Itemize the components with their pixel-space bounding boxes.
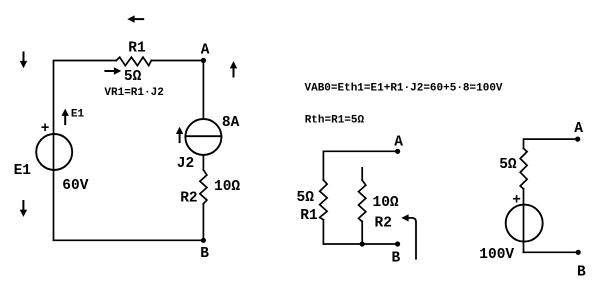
svg-text:E1: E1 bbox=[71, 108, 85, 120]
wire (R2 to node B) bbox=[202, 204, 204, 241]
svg-text:B: B bbox=[577, 265, 586, 281]
svg-text:5Ω: 5Ω bbox=[124, 69, 142, 85]
arrow up E1 emf bbox=[62, 109, 69, 125]
svg-text:A: A bbox=[201, 43, 210, 59]
bent arrow (pointing left at R2, circuit 2) bbox=[401, 214, 416, 259]
node A (circuit 2) bbox=[395, 149, 400, 154]
svg-text:R1: R1 bbox=[300, 208, 318, 224]
svg-text:E1: E1 bbox=[14, 163, 32, 179]
svg-text:100V: 100V bbox=[479, 247, 514, 263]
svg-text:A: A bbox=[574, 121, 583, 137]
svg-text:10Ω: 10Ω bbox=[373, 195, 399, 211]
node A (circuit 1) bbox=[201, 58, 206, 63]
svg-text:8A: 8A bbox=[222, 115, 240, 131]
svg-text:60V: 60V bbox=[62, 178, 88, 194]
svg-text:5Ω: 5Ω bbox=[297, 190, 315, 206]
wire (R1 to node A) bbox=[151, 60, 203, 62]
node B (circuit 1) bbox=[201, 238, 206, 243]
wire bottom (circuit 3) bbox=[524, 251, 579, 253]
resistor R2 (zigzag, circuit 2) bbox=[359, 180, 366, 221]
resistor R1 (zigzag, circuit 1) bbox=[116, 57, 151, 65]
svg-text:Rth=R1=5Ω: Rth=R1=5Ω bbox=[305, 115, 365, 127]
node B (circuit 3) bbox=[576, 250, 581, 255]
wire top (circuit 3: corner to node A) bbox=[524, 139, 578, 148]
svg-text:R2: R2 bbox=[180, 191, 197, 207]
arrow up (right of node A) bbox=[230, 61, 237, 77]
arrow right (current into R1) bbox=[104, 67, 121, 74]
arrow down (left side upper) bbox=[20, 51, 27, 68]
wire through source down to bottom (circuit 3) bbox=[523, 205, 525, 252]
current source J2 (circle with diameter line) bbox=[185, 119, 221, 155]
wire top (circuit 2: corner to node A) bbox=[323, 151, 397, 180]
wire (resistor to E, circuit 3) bbox=[523, 189, 525, 205]
resistor R2 (zigzag, circuit 1) bbox=[200, 170, 207, 204]
svg-text:+: + bbox=[512, 193, 521, 209]
resistor 5Ω (zigzag, circuit 3) bbox=[520, 148, 527, 188]
wire (R2 to bottom junction, circuit 2) bbox=[361, 222, 363, 245]
wire (node A down to J2) bbox=[202, 61, 204, 120]
wire bottom (circuit 2) bbox=[323, 243, 397, 245]
svg-text:+: + bbox=[41, 121, 50, 137]
svg-text:B: B bbox=[392, 250, 401, 266]
arrow current direction top (pointing left) bbox=[127, 15, 144, 22]
node B (circuit 2) bbox=[395, 241, 400, 246]
svg-text:J2: J2 bbox=[177, 156, 194, 172]
wire (J2 to R2) bbox=[202, 155, 204, 170]
svg-text:10Ω: 10Ω bbox=[214, 179, 240, 195]
svg-text:VR1=R1·J2: VR1=R1·J2 bbox=[104, 87, 163, 99]
arrow down (left side lower) bbox=[20, 200, 27, 217]
wire stub top of R2 (circuit 2) bbox=[361, 168, 363, 180]
node A (circuit 3) bbox=[575, 137, 580, 142]
arrow up (J2 direction) bbox=[176, 127, 183, 143]
svg-text:R1: R1 bbox=[128, 41, 146, 57]
svg-text:A: A bbox=[394, 135, 403, 151]
wire top-left (E1 top corner to R1) bbox=[54, 61, 117, 241]
svg-text:B: B bbox=[200, 246, 209, 262]
svg-text:R2: R2 bbox=[375, 215, 392, 231]
voltage source E1 (circle) bbox=[36, 134, 72, 170]
wire bottom (node B to left) bbox=[54, 239, 204, 241]
svg-text:VAB0=Eth1=E1+R1·J2=60+5·8=100V: VAB0=Eth1=E1+R1·J2=60+5·8=100V bbox=[305, 82, 503, 94]
svg-text:5Ω: 5Ω bbox=[499, 157, 517, 173]
voltage source 100V (circle, circuit 3) bbox=[506, 205, 543, 242]
wire left lower (circuit 2) bbox=[322, 220, 324, 244]
resistor R1 (zigzag, circuit 2) bbox=[320, 180, 327, 220]
junction dot (R2 to bottom wire, circuit 2) bbox=[360, 241, 365, 246]
